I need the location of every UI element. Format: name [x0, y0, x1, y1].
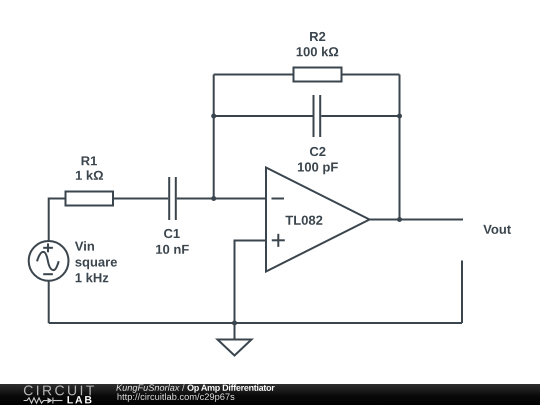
footer credit text: [116, 384, 274, 402]
wire: right feedback vertical down to output node: [399, 75, 401, 220]
wire: C1 to node A: [177, 198, 214, 200]
resistor R1: [66, 192, 114, 206]
op-amp non-inverting input marker: [272, 234, 285, 247]
CircuitLab logo wordmark: [24, 385, 94, 403]
wire: left feedback vertical (node A up to R2/C2): [213, 75, 215, 199]
voltage source V1 Vin: [29, 241, 69, 281]
wire: op-amp output to Vout terminal: [370, 219, 464, 221]
label R2 value 100 kOhm: [297, 47, 339, 57]
node Vout net label: [483, 225, 511, 234]
footer bar: [0, 384, 540, 405]
junction: C2 right to output branch: [397, 114, 402, 119]
wire: source top to R1 left lead: [49, 199, 65, 241]
op-amp inverting input marker: [272, 198, 285, 200]
junction: node A to C2 left: [211, 114, 216, 119]
label R1 value 1 kOhm: [76, 170, 103, 179]
junction: node A (C1 / R2 / C2 / inverting input): [211, 196, 216, 201]
label C2 value 100 pF: [298, 162, 338, 174]
ground symbol: [218, 323, 252, 356]
resistor R2: [294, 68, 342, 82]
label source type square: [75, 260, 117, 270]
label source name Vin: [75, 241, 94, 250]
label C1 value 10 nF: [156, 245, 189, 254]
label C2 designator: [310, 147, 326, 156]
wire: non-inverting input to ground run: [235, 241, 266, 324]
label source frequency 1 kHz: [76, 273, 109, 282]
capacitor C2: [314, 95, 321, 137]
wire: Vout lower terminal stub: [461, 261, 463, 324]
op-amp U1 TL082: [266, 168, 370, 272]
junction: ground node on bottom rail: [232, 321, 237, 326]
wire: source bottom to rail: [48, 281, 50, 323]
junction: output node: [397, 217, 402, 222]
wire: R2 to right feedback corner: [343, 74, 400, 76]
wire: top feedback left to R2: [214, 74, 293, 76]
wire: bottom return rail: [49, 322, 462, 324]
wire: node A to op-amp inverting input: [214, 198, 265, 200]
wire: C2 right lead: [321, 115, 399, 117]
capacitor C1: [169, 177, 176, 220]
label op-amp part TL082: [285, 216, 322, 225]
wire: C2 left lead: [214, 115, 313, 117]
label R1 designator: [82, 156, 97, 165]
label C1 designator: [164, 229, 180, 238]
label R2 designator: [310, 32, 325, 41]
wire: R1 to C1: [114, 198, 168, 200]
